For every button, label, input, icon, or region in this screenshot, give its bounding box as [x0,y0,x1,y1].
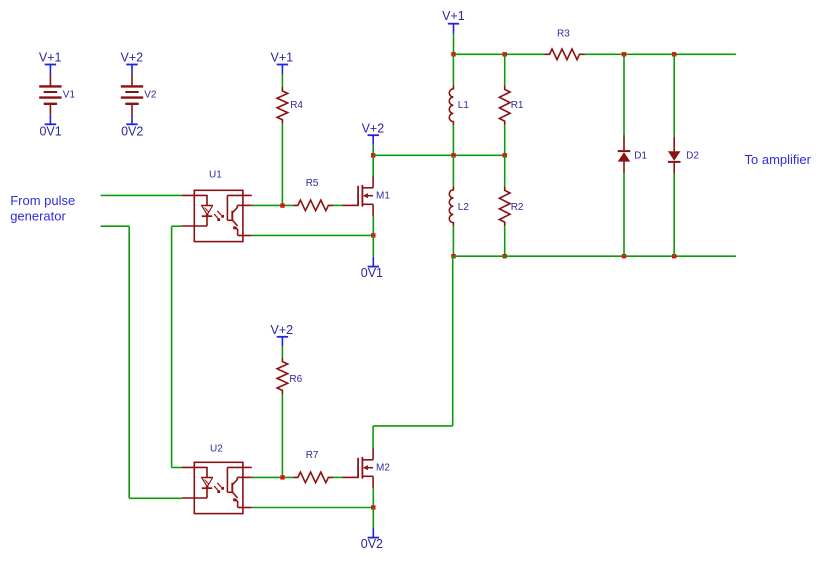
svg-text:V+2: V+2 [271,323,294,337]
resistor R1 [499,85,510,125]
svg-text:R7: R7 [306,450,319,461]
node bottom rail at L2 [451,254,455,258]
resistor R2 [499,186,510,226]
svg-text:V+2: V+2 [362,121,385,135]
wire R2 to bottom rail [504,226,506,256]
node bottom rail at D2 [672,254,676,258]
node top rail at R1 [503,52,507,56]
terminal 0V1 of M1 [372,257,374,267]
resistor R6 [277,358,288,395]
wire V+2 to R6 [281,346,283,357]
svg-text:D2: D2 [686,150,699,161]
svg-text:R5: R5 [306,178,319,189]
inductor L1 [449,85,453,125]
terminal 0V1 of V1 [45,123,56,125]
node M2 source junction [371,505,375,509]
svg-text:0V2: 0V2 [361,537,383,551]
node R4/R5 junction [280,203,284,207]
wire R7 to M2 gate [333,476,343,478]
svg-text:L2: L2 [458,202,470,213]
wire V+1 to R4 [281,75,283,87]
wire pulse input A [101,194,182,196]
svg-text:generator: generator [10,209,66,224]
node mid rail at R1 [503,153,507,157]
svg-text:0V1: 0V1 [361,266,383,280]
wire L1 to mid rail [452,125,454,155]
wire R1 to mid rail [504,125,506,155]
node mid rail at L1 [451,153,455,157]
terminal 0V2 of M2 [372,528,374,537]
opto-coupler U1 [194,190,243,241]
resistor R3 [545,49,585,60]
wire V+2 down to drain node [372,145,374,156]
svg-text:0V2: 0V2 [121,125,143,139]
battery V2 [131,75,133,86]
svg-text:0V1: 0V1 [39,125,61,139]
resistor R7 [293,472,334,483]
wire down to M2 drain [372,426,374,449]
wire top rail to R1 [504,54,506,85]
wire top rail left part [454,53,545,55]
wire top rail right part [585,53,736,55]
wire drain node to mosfet [372,155,374,176]
wire mid rail to R2 [504,155,506,186]
mosfet M2 [343,476,358,478]
terminal V+2 of V2 [126,64,137,66]
svg-text:V+1: V+1 [39,51,62,65]
wire U2 collector to node [252,476,293,478]
battery V1 [49,75,51,86]
diode D1 [623,135,625,150]
svg-text:V+1: V+1 [271,51,294,65]
node bottom rail at R2 [503,254,507,258]
wire top rail to D2 [673,54,675,137]
wire D1 to bottom rail [623,173,625,256]
wire rail to M2 drain vertical [452,256,454,426]
wire mid rail [373,154,505,156]
node M1 drain junction [371,153,375,157]
svg-text:M1: M1 [376,191,390,202]
wire V+1 to top rail [453,34,455,55]
svg-text:U1: U1 [209,169,222,180]
node M1 source junction [371,233,375,237]
wire M1 source down [372,216,374,236]
svg-text:V1: V1 [63,90,76,101]
terminal V+1 right [448,23,459,25]
terminal V+2 of R6 [277,336,288,338]
wire R5 to M1 gate [333,204,343,206]
svg-text:D1: D1 [634,150,647,161]
wire U1 cathode to U2 anode vertical [171,226,173,467]
svg-text:To amplifier: To amplifier [745,152,812,167]
svg-text:M2: M2 [376,463,390,474]
wire D2 to bottom rail [673,174,675,257]
svg-text:L1: L1 [458,100,470,111]
resistor R4 [277,87,288,124]
terminal V+2 of M1 drain [368,134,379,136]
node top rail at D2 [672,52,676,56]
wire U1 cathode link horizontal [172,225,182,227]
terminal V+1 of V1 [45,64,56,66]
svg-text:V2: V2 [144,89,157,100]
svg-text:V+2: V+2 [121,51,144,65]
wire L2 to bottom rail [452,226,454,256]
resistor R5 [293,200,334,211]
terminal V+1 of R4 [277,64,288,66]
wire U1 emitter to M1 source [252,234,373,236]
wire M2 source down [372,488,374,507]
opto-coupler U2 [194,462,243,513]
wire to M2 drain horizontal [373,425,453,427]
wire R4 to gate node [281,124,283,206]
wire U2 emitter to M2 source [252,507,373,509]
svg-text:R2: R2 [511,202,524,213]
wire top rail to L1 [452,54,454,85]
wire U1 collector to node [252,204,293,206]
wire top rail to D1 [623,54,625,135]
node top rail at D1 [622,52,626,56]
wire pulse input B [101,225,130,227]
svg-text:R3: R3 [557,29,570,40]
wire mid rail to L2 [452,155,454,186]
node bottom rail at D1 [622,254,626,258]
diode D2 [673,137,675,151]
svg-text:U2: U2 [210,443,223,454]
svg-text:From pulse: From pulse [10,193,75,208]
node R6/R7 junction [280,475,284,479]
inductor L2 [449,186,453,226]
svg-text:V+1: V+1 [442,9,465,23]
terminal 0V2 of V2 [126,123,137,125]
wire into U2 anode [172,467,182,469]
wire R6 to gate node [281,394,283,477]
wire source to 0V1 [372,235,374,256]
wire source to 0V2 [372,508,374,529]
wire pulse B vertical [128,226,130,498]
node top rail at L1 [451,52,455,56]
svg-text:R6: R6 [289,374,302,385]
svg-text:R4: R4 [290,100,303,111]
wire bottom rail [454,255,736,257]
wire pulse B to U2 cathode [129,497,182,499]
mosfet M1 [343,204,358,206]
svg-text:R1: R1 [511,100,524,111]
